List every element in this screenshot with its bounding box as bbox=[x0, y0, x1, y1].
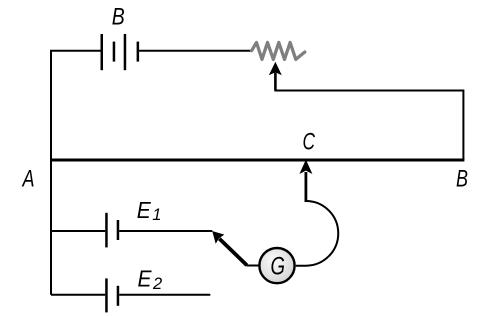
wire: left vertical bus from top corner down to E2 branch bbox=[50, 51, 52, 295]
rheostat wiper arrow bbox=[269, 62, 282, 91]
svg-text:1: 1 bbox=[152, 206, 161, 224]
svg-text:E: E bbox=[138, 266, 152, 292]
wire: curved connector from jockey to galvanometer bbox=[296, 201, 338, 266]
wire: E1 branch right segment to jockey contact bbox=[119, 230, 212, 232]
wire: top-left horizontal from corner to battery B bbox=[50, 50, 101, 52]
svg-text:C: C bbox=[303, 128, 316, 155]
jockey arrow at C (pointing up to wire) bbox=[299, 160, 312, 202]
wire: potentiometer wire from A to B bbox=[50, 159, 464, 162]
svg-text:2: 2 bbox=[152, 275, 162, 293]
wire: E1 branch left segment bbox=[51, 230, 105, 232]
svg-text:B: B bbox=[456, 166, 468, 193]
rheostat (gray zigzag resistor) bbox=[252, 43, 305, 60]
svg-text:G: G bbox=[271, 253, 286, 281]
wire: wiper down-right to right-side vertical bbox=[274, 91, 463, 161]
wire: stub left of galvanometer bbox=[247, 265, 260, 267]
wire: E2 branch left segment bbox=[51, 294, 105, 296]
battery E1 bbox=[105, 213, 119, 248]
svg-text:E: E bbox=[137, 197, 151, 223]
wire: E2 branch right segment (open end) bbox=[119, 294, 210, 296]
svg-text:B: B bbox=[112, 3, 125, 30]
jockey arrow at E1 wire end (thick diagonal with stealth head) bbox=[212, 231, 247, 265]
battery E2 bbox=[105, 278, 119, 312]
battery B bbox=[101, 34, 140, 70]
svg-text:A: A bbox=[21, 166, 34, 193]
galvanometer G bbox=[259, 248, 294, 283]
wire: battery B to rheostat bbox=[139, 50, 252, 52]
